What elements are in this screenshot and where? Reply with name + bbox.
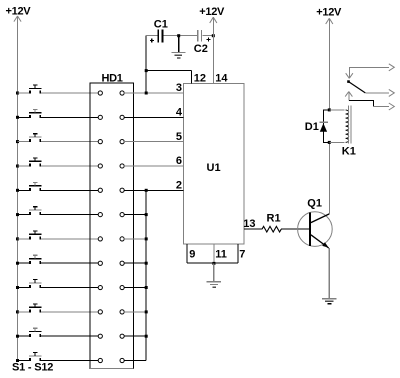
wire +12V rail to relay (328, 18, 330, 110)
wire HD1 row 5 to U1 pin 2 (124, 189, 183, 191)
svg-text:+12V: +12V (6, 6, 32, 18)
relay K1 contact NO (middle arrow) (365, 89, 394, 96)
ground (Q1 emitter) (322, 299, 336, 304)
op IC U1 body (184, 83, 244, 244)
switch S8 (pushbutton) (16, 255, 98, 264)
junction node pin2/bus (145, 189, 148, 192)
relay K1 moving blade (349, 82, 366, 93)
wire HD1 row 3 to U1 pin 5 (124, 141, 183, 143)
wire C2 to +12V rail (202, 35, 213, 37)
relay K1 contact common (pole) (346, 64, 395, 83)
relay K1 contact bottom lead (349, 101, 395, 110)
switch S11 (pushbutton) (16, 328, 98, 337)
power +12V supply symbol (right) (316, 7, 342, 24)
wire U1 pin 11 stub (213, 244, 215, 263)
wire +12V rail to U1 pin 14 (212, 17, 214, 83)
switch S9 (pushbutton) (16, 280, 98, 289)
junction node relay bottom (328, 141, 331, 144)
wire filter top (C1 left) (146, 35, 158, 37)
wire +12V left rail (vertical bus to switches) (17, 16, 19, 361)
svg-text:+12V: +12V (199, 6, 225, 18)
junction node filter midpoint (177, 34, 180, 37)
wire HD1 row 6 to bus (124, 213, 148, 216)
wire U1 pin 9 stub (186, 244, 188, 263)
diode D1 (flyback) (305, 110, 330, 142)
svg-text:4: 4 (176, 107, 183, 119)
wire HD1 row 2 to U1 pin 4 (124, 116, 183, 118)
switch S10 (pushbutton) (16, 304, 98, 313)
switch S4 (pushbutton) (16, 158, 98, 167)
capacitor C1 (150, 19, 168, 43)
svg-text:D1: D1 (305, 121, 319, 133)
svg-text:9: 9 (189, 249, 195, 261)
wire U1 pin 7 stub (237, 244, 239, 263)
svg-text:12: 12 (194, 72, 206, 84)
svg-text:HD1: HD1 (102, 72, 123, 84)
power +12V supply symbol (middle) (199, 6, 225, 23)
relay K1 contact NC (up arrow) (345, 92, 352, 101)
svg-text:11: 11 (215, 249, 227, 261)
junction node C2/+12V (212, 34, 215, 37)
switch S1 (pushbutton) (16, 85, 98, 94)
svg-text:+12V: +12V (316, 7, 342, 19)
wire HD1 row 4 to U1 pin 6 (124, 165, 183, 167)
switch S3 (pushbutton) (16, 134, 98, 143)
svg-text:S1 - S12: S1 - S12 (12, 362, 53, 374)
svg-text:3: 3 (176, 82, 182, 94)
wire R1 to Q1 base (281, 228, 309, 230)
svg-text:Q1: Q1 (307, 197, 322, 209)
wire C1 node vertical (x=146) (145, 36, 147, 93)
wire HD1 row 7 to bus (124, 237, 148, 240)
svg-text:13: 13 (243, 218, 255, 230)
wire HD1 row 10 to bus (124, 310, 148, 313)
wire HD1 row 9 to bus (124, 286, 148, 289)
wire HD1 row 1 to U1 pin 3 (124, 92, 183, 94)
relay K1 coil (329, 105, 356, 157)
switch S5 (pushbutton) (16, 182, 98, 191)
svg-text:2: 2 (176, 179, 182, 191)
svg-text:6: 6 (176, 155, 182, 167)
wire HD1 row 12 to bus (124, 360, 146, 362)
wire HD1 row 8 to bus (124, 262, 148, 265)
wire common bus S5-S12 (145, 190, 147, 360)
switch S12 (pushbutton) (16, 353, 98, 362)
junction node below pin 11 (212, 262, 215, 265)
wire U1 pin 13 to R1 (244, 228, 262, 230)
svg-text:5: 5 (176, 131, 182, 143)
svg-text:C2: C2 (194, 43, 208, 55)
wire HD1 row 11 to bus (124, 335, 148, 338)
wire pins 9-11-7 common (187, 262, 238, 264)
junction node at pin-12 branch (145, 69, 148, 72)
svg-text:K1: K1 (342, 145, 356, 157)
resistor R1 (262, 212, 281, 232)
junction node at row 1 (145, 92, 148, 95)
wire C1 to C2 (163, 35, 197, 37)
svg-text:R1: R1 (267, 212, 281, 224)
wire Q1 emitter to ground (328, 248, 330, 299)
switch S7 (pushbutton) (16, 231, 98, 240)
svg-text:U1: U1 (207, 162, 221, 174)
switch S2 (pushbutton) (16, 109, 98, 118)
svg-text:14: 14 (215, 72, 228, 84)
svg-text:7: 7 (239, 249, 245, 261)
wire Q1 collector to relay (328, 142, 330, 214)
ground (U1) (207, 263, 222, 287)
ground (filter midpoint) (171, 36, 185, 58)
transistor Q1 (NPN) (298, 197, 333, 248)
junction node relay top (328, 108, 331, 111)
svg-text:C1: C1 (154, 19, 168, 31)
switch S6 (pushbutton) (16, 207, 98, 216)
power +12V supply symbol (left) (6, 6, 32, 22)
wire branch to U1 pin 12 (146, 71, 191, 84)
connector HD1 (12x2 header) (90, 83, 134, 368)
capacitor C2 (194, 30, 211, 55)
